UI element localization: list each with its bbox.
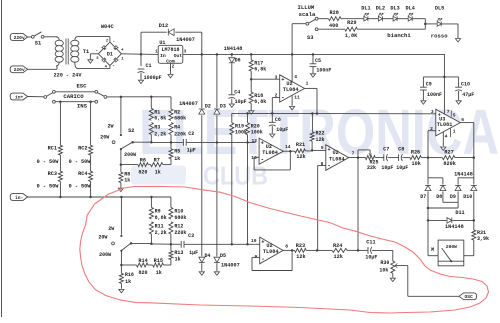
svg-text:220v: 220v [14, 35, 25, 41]
svg-text:20W: 20W [98, 235, 107, 241]
svg-text:1k: 1k [174, 156, 180, 162]
svg-text:D2: D2 [205, 104, 211, 110]
svg-text:100nF: 100nF [316, 67, 331, 73]
svg-text:ESC: ESC [76, 83, 87, 90]
svg-text:2,2k: 2,2k [154, 131, 166, 137]
svg-text:R17: R17 [254, 60, 263, 66]
svg-text:400: 400 [329, 23, 338, 29]
svg-text:RC3: RC3 [48, 171, 57, 177]
svg-text:200W: 200W [446, 244, 457, 250]
svg-text:200W: 200W [124, 152, 136, 158]
svg-text:TL084: TL084 [263, 249, 279, 255]
svg-text:R16: R16 [125, 272, 134, 278]
svg-text:D1: D1 [107, 52, 113, 58]
svg-text:1k: 1k [124, 178, 130, 184]
svg-text:12k: 12k [296, 154, 305, 160]
svg-text:4: 4 [294, 74, 297, 80]
svg-text:D12: D12 [159, 23, 168, 29]
svg-text:10k: 10k [412, 161, 421, 167]
svg-text:47µF: 47µF [462, 92, 474, 98]
svg-text:10k: 10k [379, 267, 388, 273]
svg-text:R10: R10 [174, 209, 183, 215]
svg-text:-: - [112, 40, 115, 45]
svg-text:+: + [121, 48, 124, 53]
svg-text:1N4148: 1N4148 [454, 172, 473, 178]
svg-text:R27: R27 [444, 149, 453, 155]
svg-text:10µF: 10µF [235, 99, 247, 105]
svg-text:220v: 220v [14, 67, 25, 73]
svg-text:10: 10 [251, 238, 257, 244]
svg-text:rosso: rosso [431, 33, 448, 40]
svg-text:6,8k: 6,8k [154, 116, 166, 122]
svg-text:R8: R8 [124, 172, 130, 178]
svg-text:Out: Out [174, 53, 183, 59]
svg-text:2,2k: 2,2k [155, 230, 167, 236]
svg-text:20W: 20W [100, 134, 109, 140]
svg-text:LM7818: LM7818 [161, 47, 179, 53]
svg-text:T1: T1 [83, 49, 89, 55]
svg-text:1: 1 [453, 128, 456, 134]
svg-text:5: 5 [321, 145, 324, 151]
svg-text:D7: D7 [420, 194, 426, 200]
svg-text:S3: S3 [307, 35, 313, 41]
svg-text:12: 12 [251, 138, 257, 144]
svg-text:R1: R1 [154, 109, 160, 115]
svg-text:DL4: DL4 [406, 5, 415, 11]
svg-text:R13: R13 [174, 250, 183, 256]
svg-text:10µF: 10µF [276, 127, 288, 133]
svg-text:ILLUM: ILLUM [298, 4, 315, 11]
svg-text:100nF: 100nF [427, 92, 442, 98]
svg-text:R9: R9 [155, 209, 161, 215]
svg-text:22k: 22k [367, 165, 376, 171]
svg-text:In: In [160, 53, 166, 59]
svg-text:3,9k: 3,9k [477, 236, 489, 242]
svg-text:-: - [95, 49, 98, 54]
svg-text:D8: D8 [436, 194, 442, 200]
svg-text:C2: C2 [188, 131, 194, 137]
svg-text:1N4007: 1N4007 [221, 263, 240, 269]
svg-text:14: 14 [285, 144, 291, 150]
svg-text:R29: R29 [347, 20, 356, 26]
svg-text:D3: D3 [220, 104, 226, 110]
svg-text:-: - [260, 157, 264, 164]
svg-text:C7: C7 [383, 147, 389, 153]
svg-text:820k: 820k [443, 161, 455, 167]
svg-text:1k: 1k [175, 256, 181, 262]
svg-text:in+: in+ [15, 94, 24, 100]
svg-text:C6: C6 [275, 117, 281, 123]
svg-text:-: - [437, 127, 441, 134]
svg-text:0 - 50W: 0 - 50W [37, 159, 60, 165]
svg-text:D10: D10 [463, 194, 472, 200]
svg-text:4: 4 [445, 133, 448, 139]
svg-text:1µF: 1µF [187, 148, 196, 154]
svg-text:INS: INS [77, 102, 88, 109]
svg-text:6: 6 [321, 161, 324, 167]
svg-text:DL3: DL3 [390, 5, 399, 11]
svg-text:1N4148: 1N4148 [445, 224, 464, 230]
svg-text:100k: 100k [251, 130, 263, 136]
svg-text:scala: scala [299, 11, 316, 18]
svg-text:C1: C1 [146, 63, 152, 69]
svg-text:100k: 100k [235, 130, 247, 136]
svg-text:R5: R5 [174, 149, 180, 155]
svg-text:R11: R11 [155, 224, 164, 230]
svg-text:1,8K: 1,8K [345, 33, 358, 39]
svg-text:U2: U2 [266, 243, 272, 249]
svg-text:6,8k: 6,8k [254, 67, 266, 73]
svg-text:U2: U2 [332, 150, 338, 156]
svg-text:DL5: DL5 [435, 5, 444, 11]
svg-text:1: 1 [306, 81, 309, 87]
svg-text:12k: 12k [316, 137, 325, 143]
svg-text:0 - 50W: 0 - 50W [69, 184, 92, 190]
svg-text:1k: 1k [155, 170, 161, 176]
svg-text:R4: R4 [174, 125, 180, 131]
svg-text:S2: S2 [128, 128, 134, 134]
svg-text:12k: 12k [296, 254, 305, 260]
svg-text:0 - 50W: 0 - 50W [69, 159, 92, 165]
svg-text:D11: D11 [455, 210, 464, 216]
svg-text:7: 7 [352, 151, 355, 157]
svg-text:TL084: TL084 [329, 156, 345, 162]
svg-text:RC2: RC2 [78, 145, 87, 151]
svg-text:820: 820 [138, 270, 147, 276]
svg-text:10µF: 10µF [365, 254, 377, 260]
svg-text:OSC: OSC [464, 294, 473, 300]
svg-text:220k: 220k [174, 230, 186, 236]
svg-text:D9: D9 [450, 194, 456, 200]
svg-text:7: 7 [447, 109, 450, 115]
svg-text:R20: R20 [251, 124, 260, 130]
svg-text:C9: C9 [426, 82, 432, 88]
svg-text:6,8k: 6,8k [155, 215, 167, 221]
svg-text:10µF: 10µF [396, 165, 408, 171]
svg-text:0 - 50W: 0 - 50W [37, 184, 60, 190]
svg-text:D5: D5 [220, 253, 226, 259]
svg-text:6,8k: 6,8k [254, 99, 266, 105]
svg-text:RC4: RC4 [78, 171, 87, 177]
svg-text:1N4007: 1N4007 [176, 37, 195, 43]
svg-text:1000µF: 1000µF [144, 75, 162, 81]
svg-text:-: - [261, 256, 265, 263]
svg-text:1µF: 1µF [189, 250, 198, 256]
svg-text:U1: U1 [159, 40, 165, 46]
svg-text:C4: C4 [234, 89, 240, 95]
svg-text:TL084: TL084 [262, 150, 278, 156]
svg-text:10µF: 10µF [381, 165, 393, 171]
svg-text:C3: C3 [188, 233, 194, 239]
svg-text:C11: C11 [366, 240, 375, 246]
svg-text:R28: R28 [330, 10, 339, 16]
svg-text:U2: U2 [266, 144, 272, 150]
svg-text:R12: R12 [174, 224, 183, 230]
svg-text:in-: in- [15, 195, 24, 201]
svg-text:2W: 2W [107, 123, 113, 129]
svg-text:11: 11 [294, 94, 300, 100]
svg-text:R31: R31 [477, 230, 486, 236]
svg-text:R15: R15 [154, 258, 163, 264]
svg-text:820: 820 [138, 170, 147, 176]
svg-text:TL084: TL084 [283, 87, 299, 93]
svg-text:DL2: DL2 [376, 5, 385, 11]
svg-text:R18: R18 [254, 93, 263, 99]
svg-text:C10: C10 [461, 82, 470, 88]
svg-text:W04C: W04C [101, 24, 115, 30]
svg-text:3: 3 [275, 74, 278, 80]
svg-text:R21: R21 [296, 142, 305, 148]
svg-text:680k: 680k [174, 215, 186, 221]
svg-text:R2: R2 [174, 109, 180, 115]
svg-text:5: 5 [453, 113, 456, 119]
svg-text:D6: D6 [235, 58, 241, 64]
svg-text:1N4148: 1N4148 [224, 46, 243, 52]
svg-text:2W: 2W [108, 226, 114, 232]
svg-text:200W: 200W [99, 252, 111, 258]
svg-text:CLUB: CLUB [203, 160, 268, 190]
svg-text:DL1: DL1 [361, 5, 370, 11]
svg-text:TL081: TL081 [437, 122, 453, 128]
svg-text:1k: 1k [125, 279, 131, 285]
svg-text:1N4007: 1N4007 [179, 101, 198, 107]
svg-text:R26: R26 [411, 149, 420, 155]
svg-text:-: - [112, 64, 115, 69]
svg-text:R19: R19 [235, 124, 244, 130]
svg-text:CARICO: CARICO [63, 93, 84, 100]
svg-text:RC1: RC1 [48, 145, 57, 151]
svg-text:2: 2 [430, 126, 433, 132]
svg-text:R14: R14 [138, 258, 147, 264]
svg-text:R24: R24 [333, 243, 342, 249]
svg-text:D4: D4 [205, 253, 211, 259]
svg-text:R22: R22 [316, 131, 325, 137]
svg-text:R23: R23 [296, 243, 305, 249]
svg-text:U2: U2 [286, 81, 292, 87]
svg-text:8: 8 [285, 243, 288, 249]
svg-text:220k: 220k [174, 131, 186, 137]
svg-text:3: 3 [431, 109, 434, 115]
svg-text:S1: S1 [35, 41, 41, 47]
svg-text:R7: R7 [154, 157, 160, 163]
svg-text:-: - [281, 95, 285, 102]
svg-text:M: M [431, 247, 434, 253]
svg-text:C5: C5 [315, 58, 321, 64]
svg-text:R3: R3 [154, 125, 160, 131]
svg-text:R30: R30 [380, 260, 389, 266]
svg-text:680k: 680k [174, 116, 186, 122]
svg-text:1k: 1k [156, 270, 162, 276]
svg-text:C8: C8 [398, 147, 404, 153]
svg-text:9: 9 [255, 254, 258, 260]
svg-text:12k: 12k [334, 254, 343, 260]
svg-text:bianchi: bianchi [387, 32, 411, 39]
svg-text:-: - [327, 163, 331, 170]
svg-text:R6: R6 [140, 157, 146, 163]
svg-text:220 - 24V: 220 - 24V [53, 72, 82, 78]
